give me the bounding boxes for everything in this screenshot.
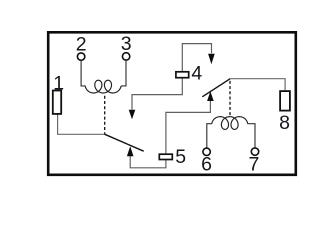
terminal box 8 bbox=[280, 91, 290, 111]
contact arrowhead down (switch B, to pin 4) bbox=[208, 54, 215, 64]
wire switch B common to terminal 8 box bbox=[230, 79, 285, 92]
wire pin 6 to coil L2 bbox=[207, 124, 212, 148]
coil L1 bbox=[85, 80, 121, 93]
coil L2 bbox=[212, 117, 248, 130]
dashed actuator link coil L2 to switch B bbox=[229, 81, 231, 116]
pin circle 2 bbox=[77, 53, 84, 60]
svg-text:7: 7 bbox=[248, 154, 259, 176]
wire pin 7 to coil L2 bbox=[248, 124, 255, 148]
terminal box 5 bbox=[159, 154, 172, 159]
pin circle 6 bbox=[203, 148, 210, 155]
contact arrowhead up (switch B, to pin 5) bbox=[207, 91, 214, 101]
wire terminal 5 net: arrow A shaft, bottom run, riser through box 5, run to arrow B shaft bbox=[130, 100, 210, 167]
contact arrowhead up (switch A, to pin 5) bbox=[127, 146, 134, 156]
pin circle 3 bbox=[122, 53, 129, 60]
switch B armature bbox=[202, 79, 230, 97]
wire pin 3 to coil L1 bbox=[121, 60, 126, 86]
switch A armature bbox=[105, 134, 144, 151]
svg-text:6: 6 bbox=[201, 154, 212, 176]
svg-text:8: 8 bbox=[279, 112, 290, 134]
pin circle 7 bbox=[251, 148, 258, 155]
terminal box 4 bbox=[176, 72, 189, 78]
contact arrowhead down (switch A, to pin 4) bbox=[129, 110, 136, 119]
svg-text:5: 5 bbox=[175, 146, 186, 168]
svg-text:4: 4 bbox=[191, 63, 202, 85]
border frame bbox=[48, 32, 296, 175]
dashed actuator link coil L1 to switch A bbox=[104, 96, 106, 134]
svg-text:3: 3 bbox=[121, 33, 132, 55]
terminal box 1 bbox=[53, 91, 61, 114]
wire pin 2 to coil L1 bbox=[81, 60, 85, 86]
wire from terminal 1 box to switch A pivot bbox=[58, 113, 105, 134]
wire terminal 4 net: riser through box 4, top run to arrow B, bottom run to arrow A bbox=[132, 44, 212, 110]
